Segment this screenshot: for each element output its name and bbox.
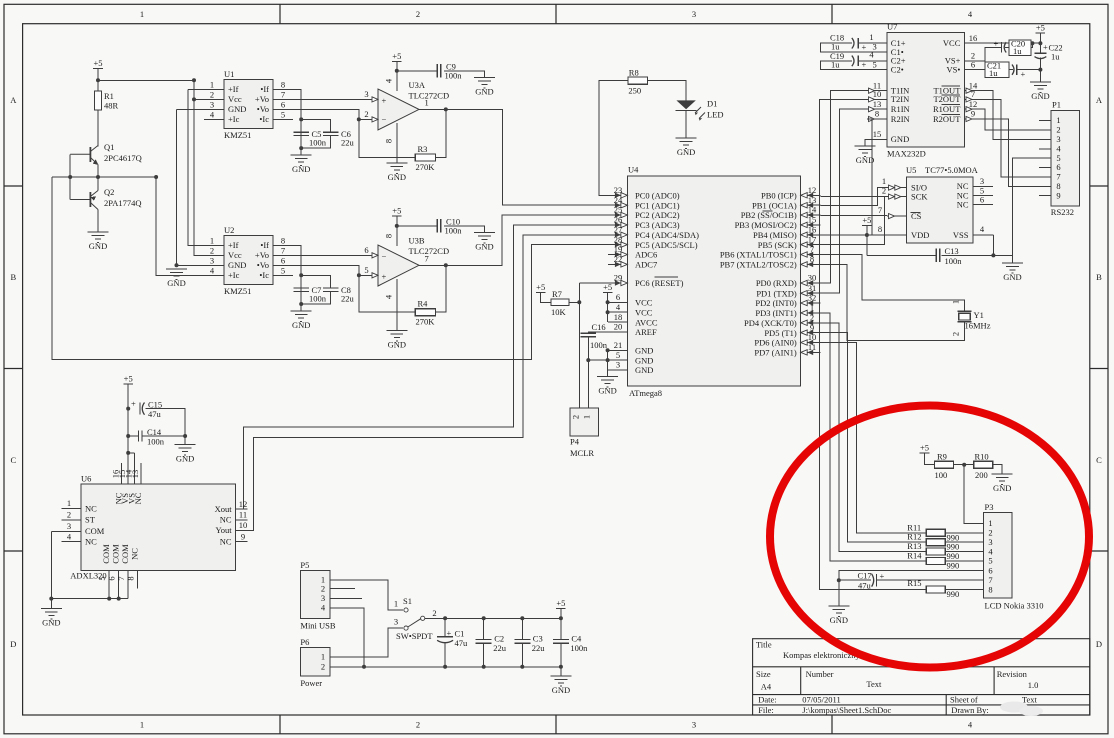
junction (1030, 41, 1034, 45)
svg-text:22u: 22u (532, 643, 546, 653)
wire to ground (838, 580, 840, 606)
wire to ground (300, 304, 302, 311)
capacitor C8 (323, 288, 339, 291)
U6 pin 15 VS (127, 453, 129, 484)
svg-text:NC: NC (957, 200, 969, 210)
wire base tie Q1-Q2 (69, 154, 71, 199)
wire (560, 609, 562, 619)
power +5 (LCD) (920, 443, 930, 454)
svg-text:R1IN: R1IN (891, 104, 910, 114)
svg-text:+If: +If (228, 84, 239, 94)
svg-text:2: 2 (321, 583, 325, 593)
svg-text:+: + (131, 399, 136, 409)
svg-text:Vcc: Vcc (228, 250, 242, 260)
wire +5 rail to U1/U2 Vcc (98, 79, 194, 81)
junction (96, 78, 100, 82)
svg-text:25: 25 (614, 205, 623, 215)
junction (299, 146, 303, 150)
U1 pin 8 (273, 88, 293, 90)
wire C22 to ground (1039, 58, 1041, 83)
svg-text:12: 12 (239, 499, 248, 509)
svg-text:2: 2 (364, 109, 368, 119)
U2 pin 3 (204, 264, 224, 266)
power +5 (U6) (123, 374, 133, 385)
svg-text:PB6 (XTAL1/TOSC1): PB6 (XTAL1/TOSC1) (720, 250, 797, 260)
junction (837, 578, 841, 582)
junction (192, 78, 196, 82)
svg-text:A4: A4 (761, 682, 772, 692)
junction (299, 302, 303, 306)
svg-text:1u: 1u (1013, 46, 1022, 56)
svg-text:15: 15 (873, 129, 882, 139)
svg-text:•If: •If (260, 240, 269, 250)
svg-text:47u: 47u (148, 409, 162, 419)
svg-text:KMZ51: KMZ51 (224, 130, 251, 140)
power +5 (U7) (1036, 23, 1046, 34)
U5 pin 8 VDD (887, 234, 907, 236)
svg-text:6: 6 (988, 565, 992, 575)
svg-text:PD6 (AIN0): PD6 (AIN0) (754, 338, 796, 348)
svg-text:3: 3 (692, 9, 696, 19)
svg-text:U5: U5 (906, 165, 916, 175)
wire PB6 to Y1 pin1 (820, 255, 964, 312)
svg-text:10: 10 (239, 520, 248, 530)
wire VSS down (992, 235, 994, 255)
diode D1 LED (676, 100, 705, 120)
svg-text:200: 200 (975, 470, 988, 480)
svg-text:NC: NC (85, 503, 97, 513)
U6 pin 1 NC (62, 508, 82, 510)
capacitor C5 (293, 132, 309, 135)
capacitor C3 (514, 618, 530, 667)
wire reset net (579, 283, 608, 408)
svg-text:12: 12 (969, 99, 978, 109)
svg-text:NC: NC (133, 492, 143, 504)
junction (126, 451, 130, 455)
svg-text:+If: +If (228, 240, 239, 250)
svg-text:3: 3 (210, 255, 214, 265)
svg-text:19: 19 (614, 244, 623, 254)
connector P5 Mini USB (300, 570, 330, 618)
resistor R4 (415, 309, 435, 316)
svg-text:U4: U4 (628, 165, 639, 175)
U4 pin 27 PC4 (ADC4/SDA) (608, 234, 627, 236)
svg-text:TLC272CD: TLC272CD (409, 91, 450, 101)
svg-text:C15: C15 (148, 400, 162, 410)
svg-text:2PA1774Q: 2PA1774Q (104, 198, 141, 208)
wire T1IN to PD0 (820, 91, 867, 283)
svg-text:250: 250 (628, 86, 641, 96)
wire PD3 to R14 (820, 313, 926, 561)
svg-text:2: 2 (571, 415, 581, 419)
wire PB7 to Y1 pin2 (820, 264, 964, 340)
junction (586, 358, 590, 362)
wire P1 pin5 to ground net (1012, 158, 1050, 255)
wire to ground (184, 436, 186, 445)
svg-text:1: 1 (321, 652, 325, 662)
svg-text:3: 3 (67, 521, 71, 531)
U6 pin 14 VS (134, 453, 136, 484)
svg-text:1: 1 (869, 32, 873, 42)
svg-text:3: 3 (616, 360, 620, 370)
svg-text:+5: +5 (862, 215, 871, 225)
U2 pin 8 (273, 244, 293, 246)
wire (953, 464, 973, 466)
sensor U1 KMZ51 (224, 80, 273, 129)
svg-text:100n: 100n (570, 643, 588, 653)
svg-text:+5: +5 (920, 443, 929, 453)
svg-text:1: 1 (810, 303, 814, 313)
U6 pin 7 COM (127, 570, 129, 598)
transistor Q2 (70, 191, 98, 210)
svg-text:10: 10 (808, 332, 817, 342)
wire PC0 to R8 (599, 81, 628, 196)
svg-text:5: 5 (872, 59, 876, 69)
ground (C14/C15) (175, 445, 196, 464)
svg-text:GND: GND (228, 260, 246, 270)
U1 pin 3 (204, 108, 224, 110)
wire VS pins (128, 452, 135, 454)
svg-text:B: B (1096, 272, 1102, 282)
svg-text:PC5 (ADC5/SCL): PC5 (ADC5/SCL) (635, 240, 698, 250)
capacitor C22 (1035, 42, 1049, 59)
wire to C8 top (301, 275, 331, 288)
svg-text:SW•SPDT: SW•SPDT (396, 631, 433, 641)
U4 pin 6 VCC (608, 301, 627, 303)
svg-text:Y1: Y1 (974, 310, 984, 320)
svg-text:20: 20 (614, 322, 623, 332)
svg-text:PB7 (XTAL2/TOSC2): PB7 (XTAL2/TOSC2) (720, 260, 797, 270)
svg-text:Power: Power (300, 678, 322, 688)
wire R13 to P3 (945, 551, 984, 553)
svg-text:30: 30 (808, 273, 817, 283)
svg-text:6: 6 (281, 255, 285, 265)
junction (962, 463, 966, 467)
resistor R11 (926, 529, 945, 536)
svg-text:07/05/2011: 07/05/2011 (802, 695, 840, 705)
svg-text:7: 7 (810, 244, 814, 254)
svg-text:5: 5 (281, 109, 285, 119)
wire node to PC5 (52, 177, 608, 360)
svg-text:•Ic: •Ic (259, 114, 269, 124)
svg-text:PC3 (ADC3): PC3 (ADC3) (635, 220, 680, 230)
svg-text:GND: GND (891, 134, 909, 144)
svg-text:AVCC: AVCC (635, 317, 658, 327)
svg-text:2: 2 (210, 89, 214, 99)
wire (1039, 43, 1041, 53)
svg-text:3: 3 (394, 617, 398, 627)
resistor R1 (95, 91, 102, 110)
svg-text:TLC272CD: TLC272CD (409, 246, 450, 256)
svg-text:1: 1 (140, 720, 144, 730)
U1 pin 4 (204, 118, 224, 120)
svg-text:•If: •If (260, 84, 269, 94)
wire (1039, 33, 1041, 43)
wire U1 pin8 to C5/C6 (273, 89, 301, 148)
U6 pin 4 NC (62, 541, 82, 543)
svg-text:+5: +5 (392, 206, 401, 216)
U4 pin 17 PB5 (SCK) (801, 244, 821, 246)
junction (117, 597, 121, 601)
svg-text:3: 3 (210, 99, 214, 109)
wire divider to P3 pin1 (964, 465, 984, 524)
junction (606, 358, 610, 362)
svg-text:PD0 (RXD): PD0 (RXD) (756, 278, 797, 288)
svg-text:LED: LED (707, 110, 724, 120)
sensor U2 KMZ51 (224, 235, 273, 284)
ground (U4) (597, 376, 618, 395)
svg-text:+: + (382, 96, 387, 106)
power +5 (U3A) (392, 51, 402, 62)
U7 pin 9 R2OUT (964, 118, 984, 120)
U6 pin 8 NC (137, 570, 139, 588)
ground (Q2) (88, 232, 109, 251)
switch S1 SW-SPDT (404, 608, 425, 630)
U2 pin 7 (273, 254, 293, 256)
svg-text:+5: +5 (124, 374, 133, 384)
svg-text:100n: 100n (445, 71, 463, 81)
svg-text:1: 1 (882, 176, 886, 186)
svg-text:9: 9 (810, 322, 814, 332)
junction (443, 616, 447, 620)
svg-text:1u: 1u (989, 68, 998, 78)
ground (supply) (550, 676, 571, 695)
capacitor C15 (131, 399, 145, 415)
wire T1OUT to P1 pin3 (984, 91, 1051, 140)
power +5 (R7) (536, 282, 546, 293)
wire (97, 69, 99, 81)
U4 pin 9 PD5 (T1) (801, 332, 821, 334)
U7 pin 13 R1IN (867, 108, 887, 110)
wire +5 to VCC/AVCC (607, 293, 609, 323)
svg-text:ADC7: ADC7 (635, 260, 657, 270)
svg-text:GND: GND (677, 147, 695, 157)
svg-text:100n: 100n (945, 256, 963, 266)
svg-text:1: 1 (394, 599, 398, 609)
svg-text:ADC6: ADC6 (635, 250, 657, 260)
wire to ground (560, 667, 562, 676)
U4 pin 14 PB2 (SS/OC1B) (801, 214, 821, 216)
U4 pin 25 PC2 (ADC2) (608, 214, 627, 216)
svg-text:6: 6 (364, 245, 368, 255)
node Q1/Q2 midpoint (52, 176, 156, 178)
wire GND link to U2 pin3 (177, 109, 225, 265)
svg-text:PD5 (T1): PD5 (T1) (764, 328, 797, 338)
svg-text:47u: 47u (455, 638, 469, 648)
ground (C10) (474, 233, 495, 252)
svg-text:1u: 1u (1051, 52, 1060, 62)
U7 pin 14 T1OUT (964, 90, 984, 92)
junction (559, 665, 563, 669)
P1 pin 4 (1039, 148, 1051, 150)
junction (559, 616, 563, 620)
wire U4 ground rail (588, 350, 608, 370)
wire to C10 (397, 225, 437, 227)
svg-text:NC: NC (220, 537, 232, 547)
U2 pin 6 (273, 264, 293, 266)
annotation red ellipse (770, 406, 1089, 668)
ground (C7/C8) (291, 311, 312, 330)
junction (96, 175, 100, 179)
capacitor C2 (476, 618, 492, 667)
svg-text:PD7 (AIN1): PD7 (AIN1) (754, 348, 796, 358)
junction (299, 273, 303, 277)
wire +5 to U3A V+ (396, 62, 398, 92)
svg-text:+: + (880, 571, 885, 581)
svg-text:7: 7 (971, 89, 975, 99)
U4 pin 3 GND (608, 369, 627, 371)
svg-text:GND: GND (475, 242, 493, 252)
svg-text:PC4 (ADC4/SDA): PC4 (ADC4/SDA) (635, 230, 699, 240)
svg-text:11: 11 (239, 510, 247, 520)
svg-text:100n: 100n (147, 437, 165, 447)
junction (1038, 68, 1042, 72)
ground (D1) (676, 138, 697, 157)
wire U6 Yout to PC4 (236, 235, 608, 531)
svg-text:2: 2 (810, 313, 814, 323)
svg-text:PB2 (SS/OC1B): PB2 (SS/OC1B) (741, 210, 797, 220)
svg-text:22u: 22u (341, 138, 355, 148)
U1 pin 5 (273, 118, 293, 120)
svg-text:R2OUT: R2OUT (933, 114, 961, 124)
svg-text:R7: R7 (552, 289, 562, 299)
svg-text:+Ic: +Ic (228, 270, 240, 280)
junction (154, 175, 158, 179)
svg-text:8: 8 (125, 576, 135, 580)
svg-text:•Ic: •Ic (259, 270, 269, 280)
junction (606, 348, 610, 352)
svg-text:P5: P5 (300, 560, 309, 570)
svg-text:7: 7 (425, 254, 429, 264)
title block (753, 639, 1090, 715)
svg-text:9: 9 (971, 109, 975, 119)
U6 pin 5 COM (108, 570, 110, 598)
wire U3A feedback (359, 119, 415, 157)
IC U5 TC77-5.0MOA (907, 177, 973, 243)
ground (R10) (992, 474, 1013, 493)
svg-text:5: 5 (364, 265, 368, 275)
wire R15 to P3 pin8 (945, 589, 984, 591)
svg-text:COM: COM (101, 544, 111, 564)
junction (520, 616, 524, 620)
svg-text:R8: R8 (629, 68, 639, 78)
wire C15 to gnd net (146, 409, 186, 436)
svg-text:VSS: VSS (953, 230, 969, 240)
P1 pin 9 (1039, 195, 1051, 197)
svg-text:990: 990 (947, 589, 960, 599)
svg-text:7: 7 (878, 205, 882, 215)
U6 pin 2 ST (62, 519, 82, 521)
svg-text:Xout: Xout (215, 504, 233, 514)
svg-text:+5: +5 (556, 598, 565, 608)
svg-text:5: 5 (988, 556, 992, 566)
svg-text:21: 21 (614, 340, 623, 350)
wire +5 to U3B V+ (396, 216, 398, 246)
crystal Y1 16MHz (958, 311, 972, 322)
svg-text:8: 8 (281, 79, 285, 89)
U4 pin 26 PC3 (ADC3) (608, 224, 627, 226)
U5 pin 5 NC (973, 195, 993, 197)
svg-text:Date:: Date: (758, 695, 776, 705)
svg-text:1: 1 (951, 300, 961, 304)
junction (362, 665, 366, 669)
U4 pin 13 PB1 (OC1A) (801, 204, 821, 206)
svg-text:MCLR: MCLR (570, 448, 594, 458)
svg-text:Title: Title (756, 640, 772, 650)
svg-text:GND: GND (292, 164, 310, 174)
svg-text:C2•: C2• (891, 64, 904, 74)
U6 pin 13 NC (140, 463, 142, 484)
wire U2 pin8 to C7/C8 (273, 245, 301, 304)
svg-text:23: 23 (614, 185, 623, 195)
junction (443, 665, 447, 669)
svg-text:5: 5 (97, 576, 107, 580)
wire R10 to ground (993, 465, 1003, 474)
svg-text:270K: 270K (416, 162, 436, 172)
connector P6 Power (300, 647, 330, 676)
connector P3 LCD Nokia 3310 (984, 513, 1013, 598)
svg-text:GND: GND (598, 385, 616, 395)
junction (606, 310, 610, 314)
wire D1 to ground (685, 110, 687, 138)
svg-text:C: C (1096, 455, 1102, 465)
junction (520, 665, 524, 669)
wire PD6 to R11 (820, 343, 926, 533)
wire SCK to PB0 (820, 195, 887, 197)
U7 pin 10 T2IN (867, 98, 887, 100)
svg-text:GND: GND (1031, 91, 1049, 101)
svg-text:Number: Number (806, 669, 834, 679)
U4 pin 31 PD1 (TXD) (801, 292, 821, 294)
wire P6 pin2 ground rail (330, 666, 561, 668)
svg-text:100n: 100n (309, 294, 327, 304)
U5 pin 6 NC (973, 204, 993, 206)
junction (175, 263, 179, 267)
svg-text:9: 9 (241, 531, 245, 541)
wire +5 to VDD (867, 234, 887, 236)
svg-text:6: 6 (616, 292, 620, 302)
svg-text:270K: 270K (416, 317, 436, 327)
wire +5 down to VS (127, 384, 129, 453)
svg-text:16: 16 (808, 225, 817, 235)
svg-text:+5: +5 (1036, 23, 1045, 33)
capacitor C14 (139, 431, 142, 442)
svg-text:C17: C17 (858, 571, 872, 581)
svg-text:2: 2 (321, 661, 325, 671)
svg-text:PC6 (RESET): PC6 (RESET) (635, 278, 684, 288)
wire U7 VCC rail (964, 42, 1040, 44)
svg-text:8: 8 (810, 254, 814, 264)
wire U1 pin2 Vcc (194, 98, 224, 100)
svg-text:R1: R1 (104, 91, 114, 101)
resistor R3 (415, 154, 435, 161)
svg-text:1: 1 (210, 235, 214, 245)
capacitor C19 (830, 51, 867, 70)
resistor R13 (926, 548, 945, 555)
svg-text:3: 3 (364, 89, 368, 99)
junction (1038, 41, 1042, 45)
junction (991, 253, 995, 257)
junction (577, 300, 581, 304)
watermark blob (1000, 702, 1028, 713)
svg-text:5: 5 (616, 350, 620, 360)
svg-text:U3A: U3A (409, 80, 426, 90)
svg-text:32: 32 (808, 293, 817, 303)
junction (126, 407, 130, 411)
wire (925, 453, 935, 465)
wire C17 to P3 pin7 (876, 579, 983, 581)
U4 pin 7 PB6 (XTAL1/TOSC1) (801, 254, 821, 256)
